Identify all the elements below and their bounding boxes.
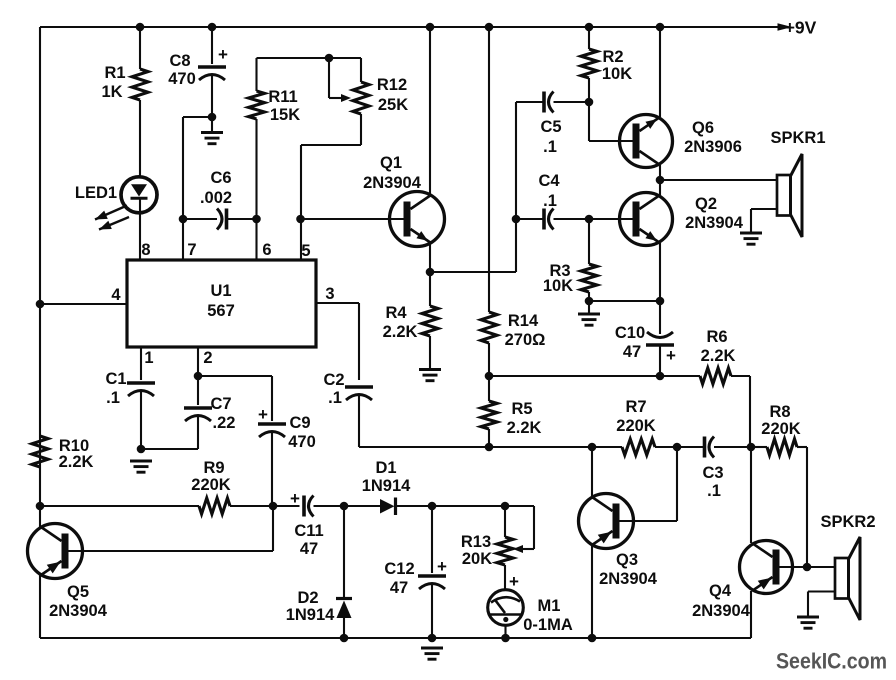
svg-text:R14: R14	[508, 312, 539, 330]
svg-text:2N3904: 2N3904	[363, 174, 422, 192]
svg-text:+: +	[218, 45, 228, 64]
svg-text:C1: C1	[105, 370, 126, 388]
svg-text:R2: R2	[602, 48, 623, 66]
svg-text:D2: D2	[297, 589, 318, 607]
svg-text:2N3904: 2N3904	[599, 570, 658, 588]
svg-text:D1: D1	[375, 459, 396, 477]
svg-text:.1: .1	[707, 482, 721, 500]
svg-text:6: 6	[262, 241, 271, 259]
svg-text:Q4: Q4	[709, 582, 732, 600]
svg-text:+9V: +9V	[785, 18, 817, 38]
svg-text:220K: 220K	[191, 476, 231, 494]
svg-text:C6: C6	[210, 169, 231, 187]
svg-text:.22: .22	[213, 414, 236, 432]
svg-text:+: +	[290, 489, 300, 508]
svg-text:1N914: 1N914	[362, 477, 411, 495]
svg-text:2.2K: 2.2K	[701, 347, 736, 365]
svg-text:47: 47	[623, 343, 641, 361]
svg-text:SeekIC.com: SeekIC.com	[776, 649, 887, 674]
svg-text:C7: C7	[210, 395, 231, 413]
svg-text:Q5: Q5	[67, 583, 89, 601]
svg-text:+: +	[509, 572, 519, 591]
svg-text:R9: R9	[203, 459, 224, 477]
svg-text:C2: C2	[323, 371, 344, 389]
svg-text:R12: R12	[377, 76, 407, 94]
svg-text:1N914: 1N914	[286, 606, 335, 624]
svg-text:2: 2	[203, 349, 212, 367]
svg-text:7: 7	[187, 241, 196, 259]
svg-text:.1: .1	[543, 138, 557, 156]
svg-text:R8: R8	[769, 403, 790, 421]
svg-text:Q6: Q6	[692, 119, 714, 137]
svg-text:15K: 15K	[270, 106, 300, 124]
svg-text:2N3906: 2N3906	[684, 138, 742, 156]
svg-text:+: +	[666, 346, 676, 365]
svg-text:4: 4	[111, 286, 121, 304]
svg-text:.1: .1	[543, 192, 557, 210]
svg-text:1K: 1K	[101, 83, 122, 101]
svg-text:270Ω: 270Ω	[505, 331, 546, 349]
svg-text:+: +	[437, 557, 447, 576]
svg-text:Q2: Q2	[695, 195, 717, 213]
svg-text:R5: R5	[511, 400, 532, 418]
svg-text:R6: R6	[706, 328, 727, 346]
svg-text:M1: M1	[538, 597, 561, 615]
svg-text:1: 1	[144, 349, 153, 367]
svg-text:20K: 20K	[462, 550, 492, 568]
svg-text:.002: .002	[200, 189, 232, 207]
svg-text:5: 5	[301, 242, 310, 260]
svg-text:567: 567	[207, 302, 235, 320]
svg-text:8: 8	[141, 241, 150, 259]
svg-text:47: 47	[300, 540, 318, 558]
svg-text:C9: C9	[289, 414, 310, 432]
svg-text:C12: C12	[384, 560, 414, 578]
svg-text:R11: R11	[268, 88, 297, 106]
svg-text:C3: C3	[702, 464, 723, 482]
svg-text:C4: C4	[538, 172, 560, 190]
svg-text:SPKR2: SPKR2	[820, 513, 875, 531]
svg-text:Q3: Q3	[616, 551, 638, 569]
svg-text:2N3904: 2N3904	[692, 602, 751, 620]
svg-text:SPKR1: SPKR1	[770, 129, 825, 147]
svg-text:R13: R13	[461, 533, 491, 551]
svg-text:47: 47	[390, 579, 408, 597]
svg-text:220K: 220K	[761, 420, 801, 438]
svg-text:C5: C5	[540, 118, 561, 136]
svg-text:R1: R1	[104, 64, 125, 82]
svg-text:C8: C8	[169, 52, 190, 70]
svg-text:470: 470	[168, 70, 196, 88]
svg-text:25K: 25K	[378, 96, 408, 114]
svg-text:470: 470	[288, 433, 316, 451]
svg-text:10K: 10K	[602, 65, 632, 83]
svg-text:+: +	[258, 405, 268, 424]
svg-text:2.2K: 2.2K	[383, 323, 418, 341]
svg-text:10K: 10K	[543, 277, 573, 295]
svg-text:.1: .1	[328, 389, 342, 407]
svg-text:R7: R7	[625, 398, 646, 416]
svg-text:3: 3	[325, 285, 334, 303]
svg-text:U1: U1	[210, 282, 231, 300]
svg-text:LED1: LED1	[75, 184, 117, 202]
svg-text:R4: R4	[385, 304, 407, 322]
svg-text:.1: .1	[106, 389, 120, 407]
svg-text:C11: C11	[294, 522, 323, 540]
svg-text:0-1MA: 0-1MA	[523, 616, 573, 634]
svg-text:2N3904: 2N3904	[685, 214, 744, 232]
svg-text:2.2K: 2.2K	[507, 419, 542, 437]
svg-text:2N3904: 2N3904	[49, 602, 108, 620]
svg-text:2.2K: 2.2K	[59, 453, 94, 471]
svg-text:220K: 220K	[616, 417, 656, 435]
svg-text:Q1: Q1	[380, 154, 402, 172]
svg-text:C10: C10	[615, 324, 645, 342]
